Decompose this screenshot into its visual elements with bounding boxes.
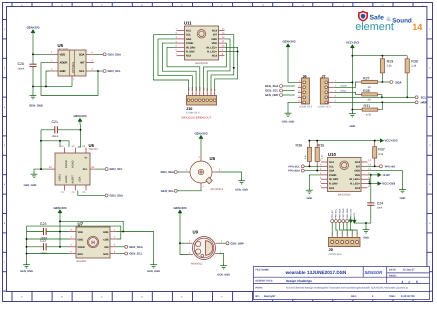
svg-text:element: element [355, 21, 394, 33]
pin 1 U9 [188, 254, 193, 256]
svg-text:SDI: SDI [104, 246, 109, 249]
terminal GEN_SDA (J6) [265, 84, 295, 88]
pin 2 ADDR [50, 62, 58, 64]
wire [218, 172, 242, 179]
pin 13 U11 [219, 34, 225, 36]
svg-text:GND: GND [211, 38, 217, 41]
wire J7 pin4 to SCL terminal [334, 96, 415, 98]
junction [351, 109, 353, 111]
svg-text:AGND: AGND [72, 160, 75, 168]
pin 4 U10 [321, 174, 328, 176]
wire U11 left loop 1 [154, 35, 189, 92]
junction [237, 51, 239, 53]
power flag +1.8V [378, 173, 390, 177]
terminal GEN_SDA (U5) [94, 52, 121, 56]
svg-text:H: H [91, 240, 95, 246]
pin C1 [64, 185, 66, 191]
resistor R27 [358, 76, 381, 89]
terminal PPG-SCL [288, 165, 321, 169]
svg-text:VCC+3V3: VCC+3V3 [350, 208, 353, 219]
wire power rail U7 [59, 216, 61, 247]
svg-text:INT: INT [213, 34, 218, 37]
wire GEN rail to J6 pin1 [288, 50, 298, 83]
svg-text:PGND: PGND [186, 42, 194, 45]
wire LED rows merge [368, 179, 370, 183]
wire [347, 223, 352, 235]
svg-text:GND: GND [354, 170, 360, 173]
wire pin1 loop to rail [60, 221, 123, 231]
junction [308, 165, 310, 167]
ground GEN_GND (J6) [282, 111, 295, 123]
svg-text:4.7k: 4.7k [378, 153, 384, 156]
wire R27 to SDA terminal [381, 81, 390, 83]
svg-text:ALERT: ALERT [72, 175, 75, 184]
pin 6 SDA [86, 53, 94, 55]
svg-text:GEN_SDA: GEN_SDA [160, 170, 174, 174]
pin 7 J10 [210, 91, 212, 95]
svg-text:NC3: NC3 [212, 55, 218, 58]
chip U6 TMP007 body [55, 143, 99, 185]
junction [59, 220, 61, 222]
pin 7 U10 [321, 187, 328, 189]
svg-text:AGND: AGND [65, 175, 68, 183]
svg-text:GEN_SDA: GEN_SDA [110, 194, 124, 198]
svg-text:\\Users\Element14\design chall: \\Users\Element14\design challenge2017\w… [286, 287, 408, 290]
svg-text:SDA: SDA [79, 53, 85, 56]
svg-text:CSB: CSB [103, 238, 109, 241]
resistor R31 [359, 104, 382, 116]
pin A1 [64, 148, 66, 154]
svg-text:GEN_SCL: GEN_SCL [265, 89, 279, 93]
svg-text:PPG-SDA: PPG-SDA [338, 208, 341, 218]
wire U11 right loop VDD [204, 43, 227, 91]
pin 2 U9 [215, 253, 219, 255]
capacitor C24 [367, 202, 383, 210]
junction [381, 81, 383, 83]
pin 4 U11 [177, 42, 185, 44]
svg-text:1: 1 [331, 233, 334, 234]
pin 3 U9 [188, 242, 193, 244]
pin 1 [110, 231, 117, 233]
terminal GEN_SDA (U8) [160, 170, 184, 174]
svg-text:R27: R27 [363, 76, 370, 80]
svg-text:4: 4 [346, 233, 349, 234]
junction [374, 140, 376, 142]
svg-text:VCC+3V3: VCC+3V3 [382, 182, 395, 186]
wire VDD row to 1.8V [368, 174, 378, 176]
wire bottom rail [33, 85, 72, 87]
svg-text:GND: GND [60, 70, 66, 73]
pin 1 VDD [50, 53, 58, 55]
pin 1 U10 [321, 161, 328, 163]
svg-text:CONN-SIL5: CONN-SIL5 [299, 106, 313, 109]
terminal GEN_SCL (U8) [161, 189, 177, 193]
pin 4 U9 [215, 242, 220, 244]
capacitor C21 [52, 120, 59, 138]
svg-text:PPG-INT: PPG-INT [331, 209, 334, 219]
wire R29 to SDA [381, 76, 383, 83]
svg-text:U10: U10 [328, 152, 336, 157]
svg-text:SCL: SCL [186, 34, 192, 37]
junction [45, 85, 47, 87]
pin 8 [70, 231, 77, 233]
svg-text:NC4: NC4 [355, 161, 361, 164]
svg-text:4.7k: 4.7k [366, 113, 372, 116]
wire SCL net [94, 70, 103, 72]
svg-text:GND: GND [400, 197, 406, 200]
pin 5 [70, 253, 77, 255]
pin 2 J6 [298, 86, 302, 88]
svg-text:INT: INT [80, 62, 85, 65]
svg-text:VDD: VDD [355, 174, 361, 177]
junction [26, 246, 28, 248]
svg-text:C21: C21 [52, 120, 58, 124]
svg-text:GEN+3V3: GEN+3V3 [194, 131, 207, 135]
wire [33, 53, 50, 55]
svg-text:4: 4 [402, 280, 404, 284]
svg-text:GND: GND [103, 231, 109, 234]
ground GEN_GND (U7 right) [147, 263, 160, 273]
wire [331, 223, 333, 235]
svg-text:4.7k: 4.7k [321, 155, 324, 159]
pin 4 [70, 246, 77, 248]
pin 8 U11 [219, 55, 225, 57]
svg-text:BY:: BY: [256, 295, 260, 298]
svg-text:IR_LED+: IR_LED+ [349, 178, 360, 181]
svg-text:GEN_HRP: GEN_HRP [230, 241, 244, 245]
svg-text:VDD: VDD [212, 42, 218, 45]
svg-text:GEN_GND: GEN_GND [24, 184, 37, 187]
svg-text:R35: R35 [318, 144, 325, 148]
svg-text:R28: R28 [363, 89, 370, 93]
svg-text:4.7k: 4.7k [304, 155, 307, 159]
svg-text:SCL: SCL [421, 95, 427, 99]
svg-text:HRP: HRP [421, 100, 427, 104]
pin 7 U11 [177, 55, 185, 57]
wire [57, 129, 80, 131]
svg-text:FILE NAME:: FILE NAME: [256, 268, 270, 271]
power flag VCC+3V3 down (J9) [349, 217, 352, 223]
svg-text:R_DRV: R_DRV [186, 51, 195, 54]
svg-text:NC2: NC2 [329, 187, 335, 190]
ground GND (U6) [24, 172, 38, 187]
junction [59, 246, 61, 248]
pin 4 U8 [212, 171, 218, 173]
svg-text:R_LED+: R_LED+ [207, 51, 217, 54]
pin 2 U10 [321, 165, 328, 167]
svg-text:R29: R29 [387, 59, 394, 63]
pin 2 [110, 238, 117, 240]
capacitor C23 [40, 222, 48, 240]
junction [308, 140, 310, 142]
wire J7 pin2 to R27 [334, 82, 359, 87]
svg-text:100nF: 100nF [18, 67, 25, 70]
svg-text:C20: C20 [18, 62, 24, 66]
svg-text:VDD: VDD [60, 53, 66, 56]
svg-text:SENSOR: SENSOR [365, 270, 383, 275]
svg-text:VCC-GND: VCC-GND [342, 208, 345, 219]
svg-text:2: 2 [336, 233, 339, 234]
svg-text:DGND: DGND [65, 160, 68, 168]
svg-text:VDD: VDD [78, 231, 84, 234]
svg-text:TMP007: TMP007 [89, 148, 99, 151]
svg-text:13-Jun-17: 13-Jun-17 [403, 269, 416, 272]
svg-text:8:40:40 PM: 8:40:40 PM [401, 295, 415, 298]
wire [27, 253, 70, 255]
wire C3 to GEN_SDA [78, 191, 105, 196]
power flag VCC+3V3 (U10 top) [380, 139, 398, 143]
terminal GEN_SDA (U6) [105, 194, 123, 198]
junction [80, 129, 82, 131]
pin 5 J9 [351, 235, 353, 238]
svg-text:GEN_HRP: GEN_HRP [265, 93, 279, 97]
svg-text:GEN_SCL: GEN_SCL [108, 69, 122, 73]
pin 4 J7 [328, 96, 334, 98]
pin 6 [110, 253, 117, 255]
svg-text:MAX30100: MAX30100 [195, 62, 208, 65]
wire gnd stub [365, 223, 367, 227]
pin B3 [90, 168, 97, 170]
wire [200, 142, 202, 156]
ground GEN_GND (U8) [235, 179, 248, 192]
power flag GEN+3V3 (J6) [282, 40, 295, 50]
pin 3 U8 [200, 156, 202, 162]
svg-text:U6: U6 [89, 143, 95, 148]
svg-text:GEN_SCL: GEN_SCL [161, 189, 175, 193]
wire pin1 to right gnd [123, 232, 153, 263]
pin 10 U10 [361, 178, 368, 180]
power flag GEN+3V3 (U5) [26, 25, 39, 35]
power flag GEN+3V3 (U9) [173, 206, 186, 216]
wire [177, 189, 201, 191]
pin 2 J9 [336, 235, 338, 238]
junction [40, 140, 42, 142]
chip U10 MAX30100 body [328, 152, 362, 196]
terminal GEN_SDA (U7) [117, 245, 143, 249]
junction [26, 253, 28, 255]
terminal PPG-SCL (J9) [334, 220, 337, 223]
wire [27, 238, 70, 240]
power flag +1.8V down (J9) [353, 217, 356, 223]
wire [27, 246, 44, 248]
ground GEN_GND (U5) [29, 93, 43, 107]
pin 12 U10 [361, 170, 368, 172]
svg-text:J6: J6 [303, 74, 307, 78]
wire U11 left loop 4 [167, 47, 200, 91]
pin 1 J10 [188, 91, 190, 95]
wire C21 left down [40, 130, 42, 169]
svg-text:5: 5 [416, 280, 418, 284]
wire [343, 223, 347, 235]
ground GND (U10 left) [306, 188, 313, 200]
svg-text:SDA: SDA [79, 176, 82, 182]
svg-text:OPT3001: OPT3001 [58, 48, 70, 51]
svg-text:GEN+3V3: GEN+3V3 [53, 206, 66, 210]
connector J9 body [329, 237, 361, 255]
pin C2 [74, 185, 76, 191]
wire U11 right loop LED [215, 47, 238, 91]
logo shield icon [358, 11, 368, 22]
svg-text:GEN_GND: GEN_GND [29, 103, 43, 107]
svg-text:PAGE:: PAGE: [389, 275, 397, 278]
pin 6 U11 [177, 51, 185, 53]
connector J6 body [299, 74, 313, 108]
svg-text:IRD: IRD [202, 87, 205, 91]
wire U11 right loop GND [207, 39, 230, 91]
junction [316, 140, 318, 142]
pin 6 J10 [206, 91, 208, 95]
svg-text:INT: INT [356, 165, 361, 168]
svg-text:14: 14 [412, 22, 422, 32]
svg-text:SDA: SDA [329, 170, 335, 173]
pin B1 [48, 168, 55, 170]
pin 5 J6 [298, 101, 302, 103]
pin 1 U11 [177, 30, 185, 32]
svg-text:ADR1: ADR1 [58, 174, 61, 181]
pin 2 U11 [177, 34, 185, 36]
terminal PPG-SDA [288, 169, 321, 173]
junction [381, 96, 383, 98]
pin 4 J9 [346, 235, 348, 238]
svg-text:10nF: 10nF [377, 206, 383, 209]
svg-text:GEN+3V3: GEN+3V3 [173, 206, 186, 210]
wire C24 branch [370, 175, 372, 203]
pin 7 [70, 238, 77, 240]
wire [351, 223, 357, 235]
pin 8 J10 [214, 91, 216, 95]
power flag GEN+3V3 (U6) [73, 114, 86, 124]
svg-text:J: J [342, 4, 343, 7]
pin 14 U10 [361, 161, 368, 163]
terminal GEN_HRP (U9) [220, 241, 244, 245]
pin 5 J10 [203, 91, 205, 95]
pin 8 U10 [361, 187, 368, 189]
wire B1 to ground [34, 169, 48, 172]
pin 3 U10 [321, 170, 328, 172]
wire A1 up [59, 141, 61, 147]
svg-text:GEN_GND: GEN_GND [217, 274, 230, 277]
svg-text:IR_DRV: IR_DRV [186, 46, 196, 49]
svg-text:PATH:: PATH: [256, 287, 263, 290]
wire J7 pin3 to R28 [334, 92, 359, 94]
capacitor C22 [40, 239, 48, 256]
svg-text:NC1: NC1 [186, 30, 192, 33]
svg-text:SDO: SDO [78, 253, 84, 256]
pin A3 [85, 148, 87, 154]
pin A2 [74, 148, 76, 154]
svg-text:C24: C24 [377, 202, 383, 206]
wire power rail U6 [78, 124, 81, 147]
wire pad to rail [71, 81, 73, 86]
junction [351, 55, 353, 57]
connector J10 body [186, 96, 217, 115]
wire [219, 254, 224, 264]
svg-text:GND: GND [363, 236, 369, 239]
sensor U8 MLX90614 body [190, 156, 224, 191]
title block [253, 267, 429, 300]
svg-text:CONN-SIL5: CONN-SIL5 [318, 106, 332, 109]
wire GND pin [46, 71, 50, 86]
wire U11 left loop 2 [158, 39, 192, 91]
svg-text:GEN-GND: GEN-GND [346, 208, 349, 219]
pin 11 U11 [219, 42, 225, 44]
svg-text:design challenge: design challenge [286, 279, 312, 283]
wire [340, 223, 343, 235]
svg-text:PPG-SCL: PPG-SCL [288, 165, 300, 168]
svg-text:VCC+3V3: VCC+3V3 [385, 139, 398, 143]
svg-text:PPG-INT: PPG-INT [385, 165, 396, 168]
junction [369, 183, 371, 185]
svg-text:MAX30100: MAX30100 [338, 193, 351, 196]
svg-text:IR_LED+: IR_LED+ [206, 46, 217, 49]
svg-text:U11: U11 [184, 20, 192, 25]
pin 13 U10 [361, 165, 368, 167]
svg-text:GEN_SCL: GEN_SCL [110, 167, 124, 171]
pin 5 J7 [328, 101, 334, 103]
junction [59, 231, 61, 233]
junction [26, 238, 28, 240]
wire [46, 231, 69, 233]
pin 9 U11 [219, 51, 225, 53]
terminal PPG-INT (J9) [331, 220, 334, 223]
chip U7 body [76, 222, 110, 263]
svg-text:PPG-SCL: PPG-SCL [335, 208, 338, 218]
svg-text:+1.8V: +1.8V [382, 173, 390, 177]
wire [180, 242, 188, 244]
pin 3 [110, 246, 117, 248]
wire INT net [368, 165, 380, 167]
terminal GEN_SCL (U7) [117, 252, 143, 256]
pin 11 U10 [361, 174, 368, 176]
junction [381, 55, 383, 57]
wire pullup rail [352, 55, 407, 57]
svg-text:PPG-SDA: PPG-SDA [288, 170, 300, 173]
svg-text:GEN_SDA: GEN_SDA [265, 84, 279, 88]
pin 7 pad [71, 76, 73, 81]
junction [233, 67, 235, 69]
ground GND (J7) [349, 112, 356, 128]
pin 5 INT [86, 62, 94, 64]
power flag VCC+3V3 (J7) [346, 41, 359, 51]
svg-text:SCL: SCL [329, 165, 335, 168]
svg-text:IR_DRV: IR_DRV [329, 178, 339, 181]
junction [32, 53, 34, 55]
terminal VCC-GND (J9) [342, 220, 345, 223]
svg-text:SDA: SDA [186, 38, 192, 41]
logo Safe&Sound element14 [355, 11, 422, 33]
svg-text:GND: GND [307, 197, 313, 200]
junction [374, 165, 376, 167]
terminal HRP [415, 100, 427, 104]
svg-text:U9: U9 [193, 229, 199, 234]
pin 14 U11 [219, 30, 225, 32]
terminal PPG-INT [379, 165, 395, 169]
svg-text:VDDD: VDDD [78, 246, 85, 249]
svg-text:GND: GND [199, 86, 202, 91]
svg-text:GND: GND [78, 238, 84, 241]
svg-text:R_DRV: R_DRV [329, 183, 338, 186]
svg-text:R36: R36 [296, 144, 303, 148]
junction [406, 96, 408, 98]
svg-text:OPT3001: OPT3001 [72, 61, 75, 73]
wire [336, 223, 337, 235]
svg-text:MAX30100 BREAKOUT: MAX30100 BREAKOUT [182, 117, 212, 120]
op-amp U5 OPT3001 body [58, 43, 87, 76]
svg-text:3: 3 [341, 233, 344, 234]
pin 2 U8 [184, 171, 190, 173]
power flag GEN+3V3 (U7) [53, 206, 66, 216]
power flag VCC+3V3 (LED) [378, 182, 396, 186]
